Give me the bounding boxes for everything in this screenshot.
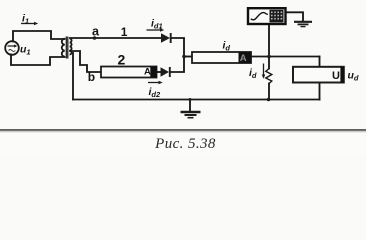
ground bottom centre: [181, 112, 201, 118]
junction ground stem: [189, 98, 192, 101]
svg-text:1: 1: [121, 25, 128, 39]
wire ammeter box to corner above voltmeter: [251, 56, 320, 58]
diode V2: [161, 67, 170, 77]
svg-text:2: 2: [118, 51, 126, 67]
current arrow id1: [147, 28, 165, 32]
separator rule: [0, 129, 366, 131]
junction of diode outputs: [182, 55, 186, 59]
svg-text:a: a: [92, 25, 100, 39]
junction oscilloscope wire: [267, 55, 271, 59]
transformer core: [66, 37, 68, 59]
ammeter box id: [192, 52, 251, 64]
AC source u1: [5, 41, 19, 55]
wire junction to ammeter box id: [184, 56, 192, 58]
diode V1: [161, 33, 171, 43]
wire source bottom to transformer primary bottom: [11, 55, 65, 66]
voltmeter box U: [293, 67, 344, 83]
wire into voltmeter box top: [319, 57, 321, 67]
current arrow id down: [262, 64, 266, 79]
wire bottom ground stem: [189, 100, 191, 112]
current arrow i1: [21, 22, 38, 26]
wire oscilloscope drop lower segment: [268, 84, 270, 100]
node a junction dot: [93, 36, 97, 40]
svg-text:Рис. 5.38: Рис. 5.38: [154, 136, 216, 152]
transformer T primary winding: [62, 39, 65, 57]
wire oscilloscope to top-right ground: [286, 12, 304, 21]
wire bottom common rail: [73, 99, 320, 101]
wire source top to transformer primary top: [13, 31, 65, 42]
ground top right: [294, 22, 312, 27]
wire transformer centre tap down to rail: [72, 53, 74, 100]
resistor box 2 with ammeter A: [101, 66, 157, 77]
wire secondary top to diode V1 anode (node a line): [70, 37, 161, 39]
current arrow id2: [148, 81, 163, 85]
transformer T secondary winding: [70, 39, 72, 55]
wire diode V1 cathode to junction: [172, 38, 184, 57]
oscilloscope: [248, 8, 286, 24]
svg-text:U: U: [332, 70, 340, 82]
paper background: [0, 0, 366, 155]
junction on bottom rail: [267, 98, 271, 102]
svg-text:b: b: [88, 70, 95, 84]
wire oscilloscope drop upper segment: [268, 24, 270, 69]
wire secondary bottom to node b and box 2: [70, 51, 101, 72]
svg-text:A: A: [144, 67, 151, 78]
wire diode V2 cathode to junction: [171, 57, 184, 72]
wire box 2 to diode V2 anode: [157, 71, 161, 73]
svg-text:A: A: [240, 53, 247, 64]
resistor zigzag on drop wire: [266, 69, 272, 84]
wire voltmeter box bottom to rail: [319, 83, 321, 100]
